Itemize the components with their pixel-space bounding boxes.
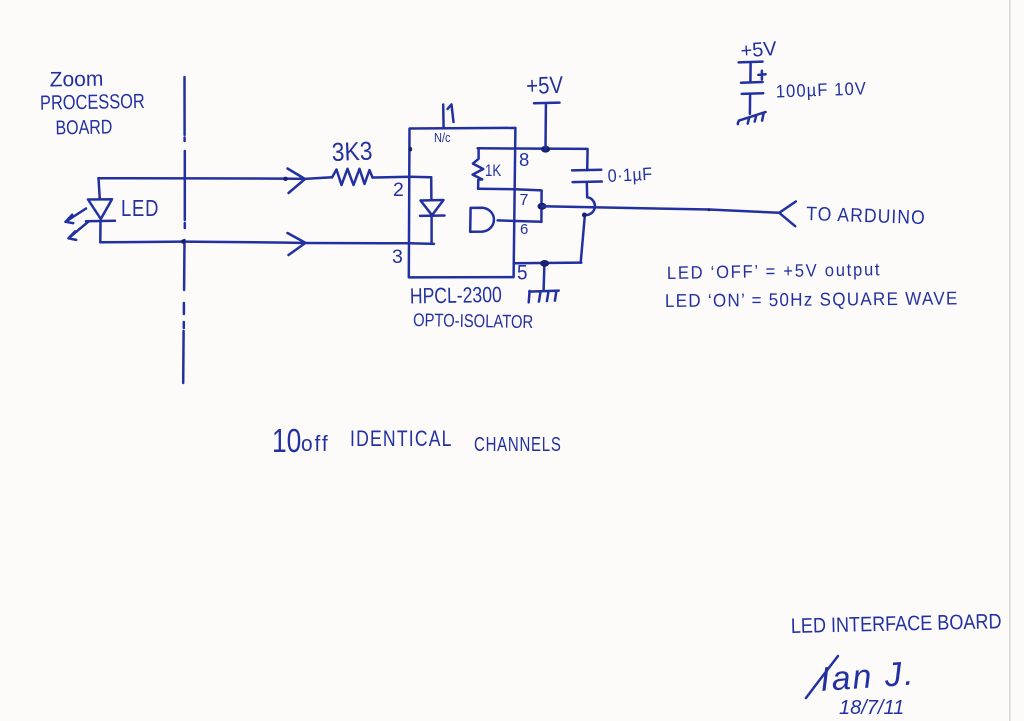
paper edge shadow line — [1009, 0, 1011, 721]
pin 1 stub — [442, 105, 445, 129]
svg-text:18/7/11: 18/7/11 — [839, 697, 904, 719]
svg-text:5: 5 — [517, 262, 528, 285]
svg-text:Zoom: Zoom — [49, 68, 103, 92]
opto-isolator U1 box — [409, 128, 516, 278]
svg-text:10: 10 — [272, 423, 301, 459]
arrowhead at Arduino end — [779, 202, 796, 227]
arrow on top wire — [288, 169, 306, 194]
board boundary dash-dot line — [183, 77, 185, 383]
arrow on bottom wire — [288, 233, 306, 255]
svg-text:100µF 10V: 100µF 10V — [775, 78, 867, 102]
svg-text:N/c: N/c — [434, 130, 451, 145]
cap lower lead with hop over output wire — [581, 183, 595, 263]
junction dot pin8/+5V — [541, 146, 550, 153]
svg-text:PROCESSOR: PROCESSOR — [40, 89, 145, 114]
svg-text:+5V: +5V — [526, 71, 564, 99]
svg-text:6: 6 — [520, 221, 528, 238]
pin 8 net: 1K top to +5V and cap — [478, 148, 588, 170]
ground (top right) — [738, 112, 766, 124]
svg-text:LED: LED — [121, 196, 159, 221]
junction blob at boundary crossing — [181, 239, 186, 243]
LED emission arrows — [66, 209, 87, 224]
svg-text:LED ‘OFF’ = +5V output: LED ‘OFF’ = +5V output — [667, 259, 882, 284]
svg-text:0·1µF: 0·1µF — [607, 164, 653, 186]
LED (zoom board) — [99, 178, 100, 199]
capacitor C 100uF electrolytic — [739, 60, 763, 63]
svg-text:off: off — [301, 432, 330, 457]
svg-text:2: 2 — [393, 179, 404, 201]
svg-text:IDENTICAL: IDENTICAL — [350, 427, 453, 451]
svg-text:3K3: 3K3 — [331, 137, 373, 167]
signature swash — [806, 656, 838, 698]
internal LED of opto — [430, 177, 433, 200]
wire: top (anode) run from LED to opto pin 2 — [99, 177, 333, 179]
junction blob on top wire — [283, 177, 288, 181]
label: Zoom Processor Board — [39, 67, 145, 139]
pin7 net: 1K bottom across edge, down to junction — [478, 189, 541, 222]
junction dot pins 7-6 output — [537, 203, 546, 210]
blob on box left edge — [408, 147, 412, 152]
ground (opto) — [529, 291, 559, 303]
svg-text:TO ARDUINO: TO ARDUINO — [806, 202, 926, 228]
blob below hop — [582, 213, 587, 218]
wire: bottom (cathode) run from LED to opto pin 3 — [100, 242, 434, 244]
svg-text:3: 3 — [392, 246, 403, 268]
pin 5 net to ground — [514, 261, 582, 264]
internal gate of opto — [470, 208, 494, 232]
capacitor 0.1uF plates — [572, 168, 601, 171]
junction dot pin5 — [540, 260, 549, 267]
svg-text:1K: 1K — [485, 162, 501, 181]
output wire to Arduino — [542, 206, 779, 213]
svg-text:+5V: +5V — [740, 38, 778, 63]
svg-text:8: 8 — [519, 149, 529, 170]
resistor R 3K3 zigzag — [332, 169, 373, 185]
wire: resistor to pin 2 into box — [373, 176, 432, 179]
svg-text:7: 7 — [520, 192, 529, 209]
svg-text:LED INTERFACE BOARD: LED INTERFACE BOARD — [791, 610, 1002, 638]
resistor R 1K — [473, 148, 484, 188]
pin6/gate output wire — [498, 220, 542, 221]
svg-text:BOARD: BOARD — [55, 116, 112, 139]
svg-text:LED ‘ON’ = 50Hz SQUARE WAVE: LED ‘ON’ = 50Hz SQUARE WAVE — [665, 288, 959, 311]
svg-text:CHANNELS: CHANNELS — [474, 433, 562, 456]
svg-text:OPTO-ISOLATOR: OPTO-ISOLATOR — [413, 309, 533, 332]
pin 1 label — [448, 105, 454, 123]
svg-text:HPCL-2300: HPCL-2300 — [410, 283, 502, 309]
